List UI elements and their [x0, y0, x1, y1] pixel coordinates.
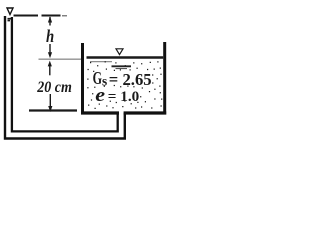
tank bottom left segment [81, 111, 119, 114]
water surface underline (grey) [90, 61, 112, 63]
water surface short underline 1 [112, 65, 132, 67]
tank bottom right segment [124, 111, 167, 114]
svg-text:e: e [95, 85, 105, 106]
tank water surface line [87, 56, 164, 59]
tank right wall [163, 42, 166, 115]
dimension h upper arrowhead [48, 16, 52, 22]
standpipe and bottom pipe inner wall [12, 17, 118, 131]
dimension h upper arrow shaft [49, 17, 51, 26]
datum reference line at tank base level [29, 109, 77, 111]
tank left wall [81, 43, 84, 115]
standpipe water surface mark [8, 19, 13, 21]
standpipe and bottom pipe outer wall [5, 16, 125, 139]
standpipe water level symbol (nabla) [7, 8, 13, 15]
svg-text:h: h [46, 26, 54, 46]
dimension h lower arrowhead [48, 52, 52, 58]
tank water level reference line (grey) [39, 58, 85, 60]
tank water surface symbol (nabla) [116, 49, 123, 55]
svg-text:= 1.0: = 1.0 [108, 89, 140, 105]
svg-text:= 2.65: = 2.65 [109, 70, 152, 89]
piezometric dashed line thin tail [62, 15, 67, 17]
dimension h lower arrow shaft [49, 44, 51, 53]
soil stipple dots [87, 62, 162, 109]
svg-text:20 cm: 20 cm [36, 79, 71, 96]
dimension 20cm upper arrowhead [48, 61, 52, 67]
dimension 20cm lower arrowhead [48, 106, 52, 112]
dimension 20cm upper arrow shaft [49, 66, 51, 76]
dimension 20cm lower arrow shaft [49, 94, 51, 106]
water surface short underline 2 [116, 68, 128, 70]
piezometric level dashed line [14, 15, 61, 17]
